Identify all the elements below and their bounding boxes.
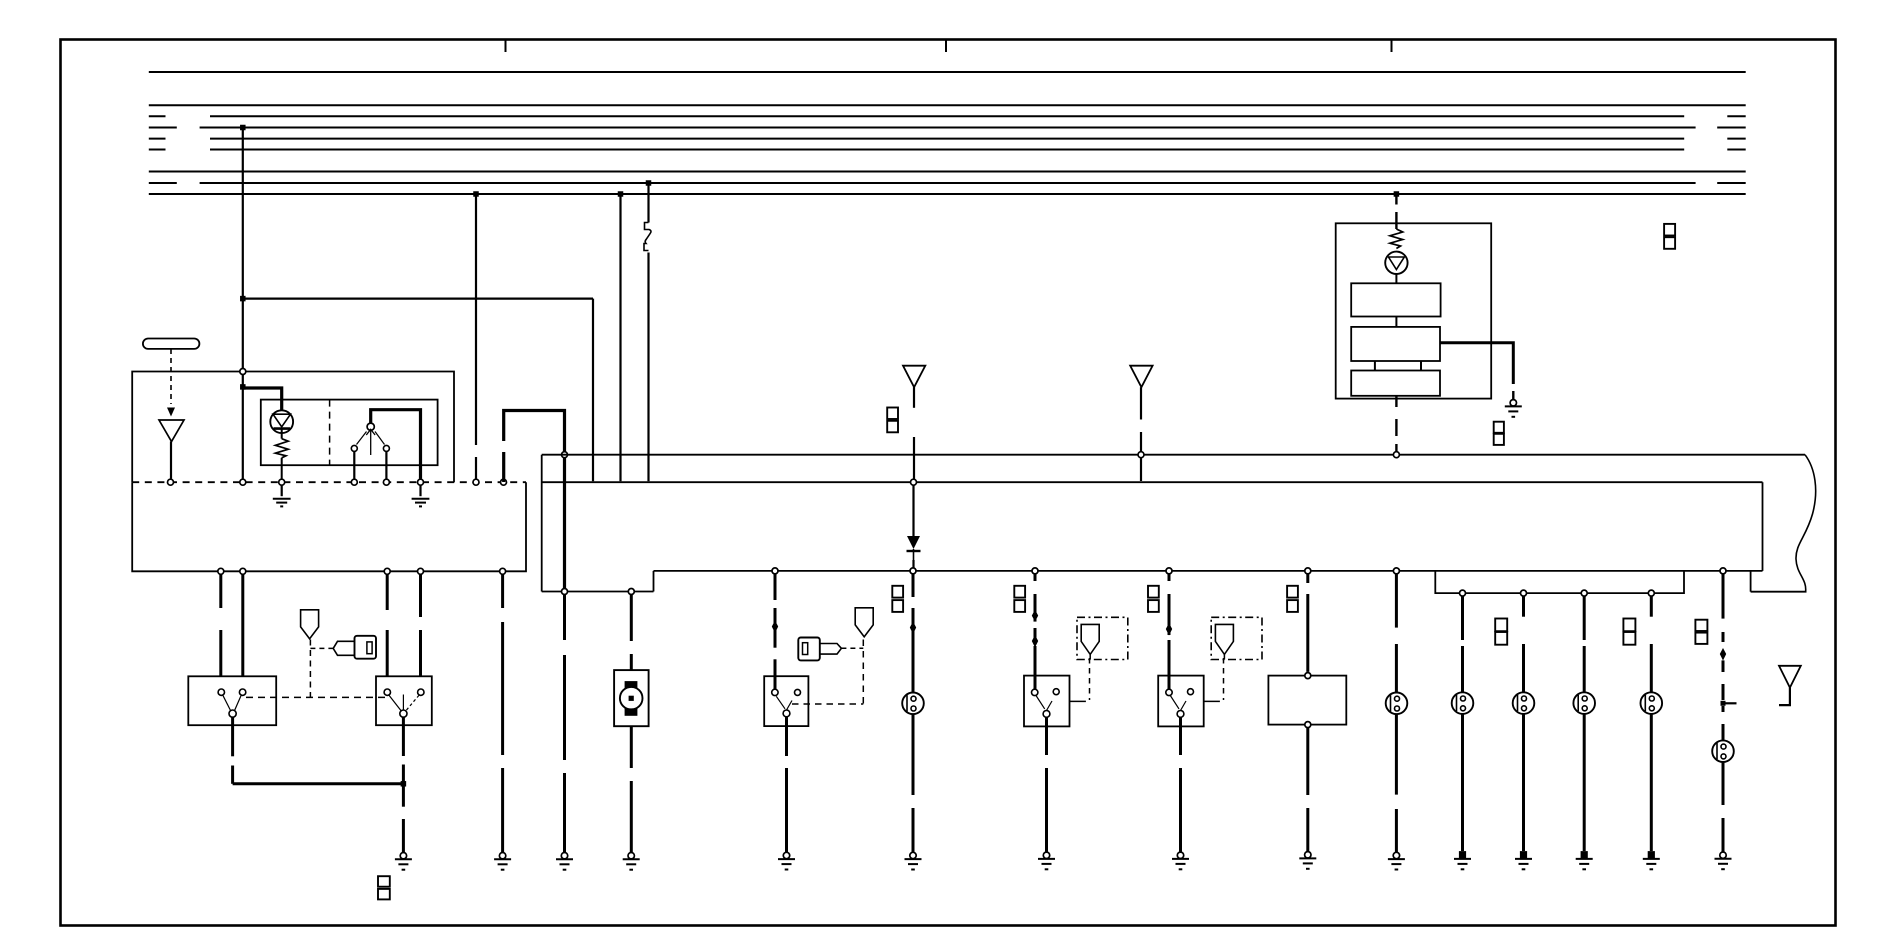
pin x914 inner top bbox=[911, 479, 917, 485]
ground x503 bbox=[499, 853, 505, 859]
component box dashed top edge bbox=[132, 481, 526, 483]
motor circle bbox=[620, 687, 643, 710]
switch left contact arm bbox=[357, 432, 367, 445]
dashed key link M bbox=[841, 647, 863, 649]
wire ECU to R1 x1035 bbox=[1034, 575, 1037, 582]
ECU sub connector box bbox=[1435, 571, 1684, 593]
wire inside box x243 bbox=[242, 374, 244, 479]
connector squares x1495 bbox=[1495, 619, 1507, 632]
funnel symbol R1 bbox=[1081, 624, 1099, 654]
funnel symbol M bbox=[855, 608, 873, 637]
L2 pole bbox=[400, 710, 407, 717]
wire x564.5 through ECU bbox=[563, 458, 566, 592]
long wire x502.6 to ground bbox=[501, 575, 504, 609]
motor brush top bbox=[625, 681, 638, 688]
bus wire 1 bbox=[149, 71, 1746, 73]
key symbol M bbox=[798, 638, 820, 661]
ground x786 bbox=[783, 852, 789, 858]
connector squares x1148 bbox=[1148, 586, 1159, 598]
R2 right contact bbox=[1188, 689, 1194, 695]
L2 pole wire to ground bbox=[402, 717, 405, 756]
connector squares x892 bbox=[892, 586, 903, 598]
pin x1584 on sub box bbox=[1581, 590, 1587, 596]
arrow on wire x1723 bbox=[1720, 648, 1726, 661]
junction x403 y784 bbox=[401, 781, 407, 787]
lamp lead bbox=[281, 429, 283, 439]
L2 left contact bbox=[384, 689, 390, 695]
pin x420 on box bottom bbox=[418, 568, 424, 574]
diode wire inside ECU bbox=[912, 486, 914, 537]
R2 pole wire to ground bbox=[1179, 717, 1182, 755]
dashed drop from funnel R1 bbox=[1089, 658, 1091, 700]
top border tick 1 bbox=[505, 40, 507, 52]
bulb wire to ground x1462 bbox=[1461, 714, 1464, 851]
ECU inner top edge bbox=[542, 481, 1763, 483]
connector squares x1623 bbox=[1623, 619, 1635, 632]
ground x564 bbox=[561, 853, 567, 859]
pin x1462 on sub box bbox=[1460, 590, 1466, 596]
pin x1308 on ECU bottom bbox=[1305, 568, 1311, 574]
bulb wire to ground x1584 bbox=[1583, 714, 1586, 851]
switch left contact bbox=[351, 445, 357, 451]
switch pole circle bbox=[367, 423, 374, 430]
elbow wire x503.7 to x564.5 bbox=[502, 452, 505, 482]
wire box to ground x1308 bbox=[1306, 728, 1309, 795]
relay link 1-2 bbox=[1395, 317, 1397, 327]
pin x1523 on sub box bbox=[1521, 590, 1527, 596]
ground x1180 bbox=[1177, 852, 1183, 858]
pin x564.5 notch bbox=[562, 589, 568, 595]
funnel symbol L bbox=[301, 610, 319, 639]
bulb x1523 bbox=[1513, 692, 1535, 714]
relay ground bbox=[1510, 400, 1516, 406]
ECU notch bottom edge bbox=[542, 591, 654, 593]
dashed drop from funnel R2 bbox=[1223, 658, 1225, 700]
pin x243 on dashed edge bbox=[240, 479, 246, 485]
relay block 1 bbox=[1351, 283, 1440, 316]
ECU torn right edge bbox=[1796, 455, 1816, 592]
wire ECU down x1723 bbox=[1722, 575, 1725, 619]
arrows on wire x1035 bbox=[1032, 610, 1038, 622]
bulb x1723 bbox=[1712, 740, 1734, 762]
wire box to L1 x220.8 bbox=[219, 575, 222, 609]
resistor zigzag bbox=[275, 439, 288, 458]
R1 left contact bbox=[1032, 689, 1038, 695]
wire sub box to bulb x1651 bbox=[1650, 597, 1653, 617]
M1 arms bbox=[776, 696, 785, 709]
relay lamp triangle bbox=[1389, 257, 1405, 270]
switch right contact arm bbox=[375, 432, 385, 445]
M1 pole wire to ground bbox=[785, 717, 788, 756]
junction on bus wire 8 at x648 bbox=[646, 180, 652, 186]
long wire x564.5 to ground bbox=[563, 595, 566, 641]
L1 pole wire down bbox=[231, 717, 234, 756]
pin x476 on dashed edge bbox=[473, 479, 479, 485]
motor wire to ground bbox=[630, 726, 633, 768]
ground x1723 bbox=[1720, 852, 1726, 858]
L2 arms bbox=[402, 695, 404, 711]
wire bus9 to relay box bbox=[1395, 194, 1397, 205]
junction on bus wire 9 at x476 bbox=[473, 191, 479, 197]
bus wire 6 bbox=[149, 149, 166, 151]
ECU outer top edge bbox=[542, 454, 1805, 456]
switch box R2 bbox=[1158, 676, 1204, 727]
wire ECU to bulb x913 bbox=[912, 575, 915, 598]
ground inside box at x420 bbox=[419, 486, 421, 497]
indicator lamp circle bbox=[270, 410, 293, 433]
washer motor box bbox=[614, 670, 649, 726]
dash-dot box R1 bbox=[1077, 617, 1128, 659]
bulb wire to ground x1396 bbox=[1395, 714, 1398, 794]
wire box to L1 x243 bbox=[241, 575, 244, 677]
antenna triangle in box bbox=[159, 420, 184, 442]
component box upper outline bbox=[132, 372, 454, 483]
pin x386 on dashed edge bbox=[383, 479, 389, 485]
pin x282 on dashed edge bbox=[279, 479, 285, 485]
wire ECU to M1 x775 bbox=[774, 575, 777, 601]
inner box dashed divider bbox=[329, 400, 331, 466]
dashed wire from pill bbox=[170, 349, 172, 404]
relay unit box bbox=[1336, 223, 1492, 398]
connector squares x1014 bbox=[1014, 586, 1025, 598]
R1 pole wire to ground bbox=[1045, 717, 1048, 755]
branch wire y298.6 bbox=[243, 298, 593, 300]
pin x221 on box bottom bbox=[218, 568, 224, 574]
relay lamp circle bbox=[1385, 252, 1407, 274]
component box x1308 bbox=[1268, 676, 1346, 725]
bus wire 2 bbox=[149, 104, 1746, 106]
pin x564.5 on ECU outer top bbox=[562, 452, 568, 458]
pin x1169 on ECU bottom bbox=[1166, 568, 1172, 574]
lamp bar bbox=[274, 427, 291, 430]
R2 pole bbox=[1177, 711, 1184, 718]
ground x1584 bbox=[1581, 851, 1588, 859]
pin box bottom x1308 bbox=[1305, 722, 1311, 728]
pin x775 on ECU bottom bbox=[772, 568, 778, 574]
pin x1651 on sub box bbox=[1648, 590, 1654, 596]
ECU outer bottom left riser bbox=[1750, 571, 1752, 592]
switch box L1 bbox=[188, 676, 276, 725]
pill shaped remote symbol bbox=[143, 339, 200, 349]
lamp triangle bbox=[273, 414, 291, 427]
wire from bus 9 down at x621 bbox=[619, 194, 621, 481]
relay legs 2-3 bbox=[1374, 361, 1376, 371]
arrow on wire x775 bbox=[772, 621, 778, 634]
antenna triangle x1141 bbox=[1130, 366, 1152, 388]
switch box R1 bbox=[1024, 676, 1070, 727]
elbow wire to junction bbox=[233, 782, 404, 785]
right contact lead bbox=[385, 451, 387, 478]
pin x913 on ECU bottom bbox=[910, 568, 916, 574]
junction dot x1723 y703 bbox=[1721, 701, 1726, 706]
L1 pole bbox=[229, 710, 236, 717]
relay fuse zigzag bbox=[1390, 229, 1403, 249]
bulb x913 bbox=[902, 693, 924, 715]
arrow on wire x913 bbox=[910, 622, 916, 635]
wire from bus 8 down at x648 bbox=[647, 183, 649, 223]
pin x243 on box bottom bbox=[240, 568, 246, 574]
wire sub box to bulb x1584 bbox=[1583, 597, 1586, 641]
antenna triangle x914 bbox=[903, 366, 925, 388]
motor brush bottom bbox=[625, 708, 638, 715]
dashed link L1 to L2 bbox=[246, 696, 387, 698]
switch pole riser bbox=[371, 410, 421, 479]
relay lamp lead bbox=[1395, 274, 1397, 283]
pin x387 on box bottom bbox=[384, 568, 390, 574]
top border tick 3 bbox=[1391, 40, 1393, 52]
L1 right contact bbox=[239, 689, 245, 695]
ground x1651 bbox=[1648, 851, 1655, 859]
junction on bus wire 9 at x620 bbox=[618, 191, 624, 197]
pin x1723 on ECU bottom bbox=[1720, 568, 1726, 574]
funnel tip stub R2 bbox=[1223, 654, 1225, 659]
R2 arms bbox=[1170, 696, 1179, 709]
stub right x1723 bbox=[1723, 702, 1737, 704]
junction on bus wire 4 bbox=[240, 125, 246, 131]
wire sub box to bulb x1523 bbox=[1522, 597, 1525, 617]
switch arm arrow bbox=[370, 431, 372, 456]
pin x503 on box bottom bbox=[500, 568, 506, 574]
wire from bus 4 down at x243 bbox=[242, 128, 244, 372]
R2 left contact bbox=[1166, 689, 1172, 695]
antenna triangle right bbox=[1779, 666, 1801, 688]
pin x631 notch bbox=[628, 589, 634, 595]
ECU left edge bbox=[541, 455, 543, 592]
connector squares x1494 bbox=[1494, 422, 1504, 433]
bulb x1584 bbox=[1573, 692, 1595, 714]
L1 left contact bbox=[218, 689, 224, 695]
wire from bus 9 down at x476 bbox=[475, 194, 477, 445]
ground x1308 bbox=[1305, 852, 1311, 858]
bus wire 4 bbox=[149, 127, 177, 129]
pin x243 on box top bbox=[240, 369, 246, 375]
pin x170.5 on dashed edge bbox=[168, 479, 174, 485]
pin box top x1308 bbox=[1305, 673, 1311, 679]
connector squares x1287 bbox=[1287, 586, 1298, 598]
R1 pole bbox=[1043, 711, 1050, 718]
relay block 2 bbox=[1351, 327, 1440, 361]
wire ECU to bulb x1396 bbox=[1395, 575, 1398, 628]
connector squares x378 bottom bbox=[378, 876, 390, 887]
bus wire 5 bbox=[149, 138, 166, 140]
switch box M1 bbox=[764, 676, 808, 726]
component box lower outline bbox=[132, 482, 526, 571]
ground x631 bbox=[628, 853, 634, 859]
connector squares x887 bbox=[887, 408, 898, 420]
wire notch to motor x631 bbox=[630, 595, 633, 642]
relay wire down to ECU bbox=[1395, 396, 1397, 407]
ground inside box at x282 bbox=[281, 486, 283, 497]
pin x1141 outer top bbox=[1138, 452, 1144, 458]
inline connector on wire x648 bbox=[644, 223, 651, 251]
motor center dot bbox=[629, 696, 634, 701]
antenna stem x1141 bbox=[1140, 387, 1142, 419]
antenna stem bbox=[170, 442, 172, 479]
ground x1396 bbox=[1393, 852, 1399, 858]
R1 link to funnel bbox=[1070, 700, 1086, 702]
pin x1396 outer top bbox=[1393, 452, 1399, 458]
pin x420 on dashed edge bbox=[418, 479, 424, 485]
diode symbol bbox=[907, 536, 920, 549]
pin x354 on dashed edge bbox=[351, 479, 357, 485]
dashed key link L bbox=[310, 647, 333, 649]
top border tick 2 bbox=[945, 40, 947, 52]
arrow on wire x1169 bbox=[1166, 623, 1172, 636]
L2 right contact bbox=[418, 689, 424, 695]
wire ECU to box x1308 bbox=[1306, 575, 1309, 584]
ground x1523 bbox=[1520, 851, 1527, 859]
dash-dot box R2 bbox=[1211, 617, 1262, 659]
ground x403 bbox=[400, 853, 406, 859]
R1 arms bbox=[1036, 696, 1045, 709]
bulb wire to ground x1523 bbox=[1522, 714, 1525, 851]
bulb wire to ground x913 bbox=[912, 714, 915, 795]
key symbol L bbox=[355, 636, 377, 659]
L1 arms bbox=[223, 695, 231, 710]
M1 left contact bbox=[772, 689, 778, 695]
funnel symbol R2 bbox=[1215, 624, 1233, 654]
ECU notch right riser bbox=[653, 571, 655, 592]
wire to bulb x1723 bbox=[1722, 706, 1725, 712]
M1 dashed link right bbox=[792, 703, 863, 705]
junction at x243 y298.6 bbox=[240, 296, 246, 302]
antenna stem right bbox=[1779, 688, 1790, 706]
junction on bus wire 9 at x1396 bbox=[1394, 191, 1400, 197]
switch right contact bbox=[383, 445, 389, 451]
ECU bottom edge bbox=[654, 570, 1763, 572]
M1 right contact bbox=[795, 689, 801, 695]
left contact lead bbox=[353, 451, 355, 478]
bus wire 3 bbox=[149, 115, 166, 117]
dashed drop from funnel M bbox=[862, 640, 864, 705]
wire sub box to bulb x1462 bbox=[1461, 597, 1464, 641]
bus wire 9 bbox=[149, 193, 1746, 195]
wire ECU to R2 x1169 bbox=[1168, 575, 1171, 582]
bus wire 8 bbox=[149, 182, 177, 184]
wire box to L2 x387 bbox=[386, 575, 389, 611]
connector squares x1664 top right bbox=[1664, 224, 1675, 236]
R2 link to funnel bbox=[1204, 700, 1220, 702]
thick elbow to lamp bbox=[243, 388, 282, 410]
connector squares x1695 bbox=[1695, 620, 1707, 631]
ground x1462 bbox=[1459, 851, 1466, 859]
branch wire down x593 bbox=[592, 299, 594, 482]
bulb wire to ground x1651 bbox=[1650, 714, 1653, 851]
pin x503 on dashed edge bbox=[501, 479, 507, 485]
antenna stem x914 bbox=[913, 387, 915, 408]
bulb x1462 bbox=[1452, 692, 1474, 714]
bulb x1651 bbox=[1641, 692, 1663, 714]
relay output wire right bbox=[1440, 343, 1513, 384]
pin x1035 on ECU bottom bbox=[1032, 568, 1038, 574]
bulb x1396 bbox=[1386, 693, 1408, 715]
junction x243 y386.9 bbox=[240, 384, 246, 390]
wire box to L2 x420 bbox=[419, 575, 422, 618]
M1 pole bbox=[783, 710, 790, 717]
ECU outer bottom edge bbox=[1751, 591, 1807, 593]
dashed drop from funnel L bbox=[309, 640, 311, 698]
bulb wire to ground x1723 bbox=[1722, 762, 1725, 805]
ground x913 bbox=[910, 852, 916, 858]
ground x1046 bbox=[1043, 852, 1049, 858]
ECU inner right edge bbox=[1762, 482, 1764, 571]
switch box L2 bbox=[376, 676, 432, 725]
filled arrow into antenna bbox=[167, 408, 175, 417]
bus wire 7 bbox=[149, 171, 1746, 173]
inner lamp and switch box bbox=[261, 400, 438, 466]
pin x1396 on ECU bottom bbox=[1393, 568, 1399, 574]
funnel tip stub R1 bbox=[1089, 654, 1091, 659]
relay block 3 bbox=[1351, 371, 1440, 396]
R1 right contact bbox=[1053, 689, 1059, 695]
resistor lead bbox=[281, 458, 283, 479]
